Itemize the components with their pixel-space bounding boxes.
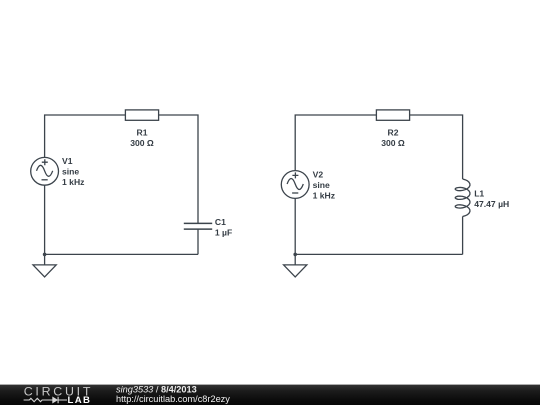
svg-text:V1: V1 — [62, 156, 73, 166]
svg-text:L1: L1 — [474, 189, 484, 199]
svg-text:1 µF: 1 µF — [215, 228, 232, 238]
svg-text:sing3533 / 8/4/2013: sing3533 / 8/4/2013 — [116, 385, 197, 395]
svg-text:300 Ω: 300 Ω — [130, 138, 154, 148]
svg-text:V2: V2 — [313, 170, 324, 180]
svg-text:47.47 µH: 47.47 µH — [474, 199, 509, 209]
svg-text:R1: R1 — [137, 127, 148, 137]
svg-text:R2: R2 — [388, 127, 399, 137]
svg-text:C1: C1 — [215, 217, 226, 227]
svg-text:1 kHz: 1 kHz — [62, 177, 84, 187]
svg-text:sine: sine — [313, 180, 330, 190]
svg-text:1 kHz: 1 kHz — [313, 191, 335, 201]
svg-text:http://circuitlab.com/c8r2ezy: http://circuitlab.com/c8r2ezy — [116, 394, 230, 404]
svg-text:LAB: LAB — [68, 395, 92, 405]
svg-text:300 Ω: 300 Ω — [381, 138, 405, 148]
svg-text:sine: sine — [62, 167, 79, 177]
